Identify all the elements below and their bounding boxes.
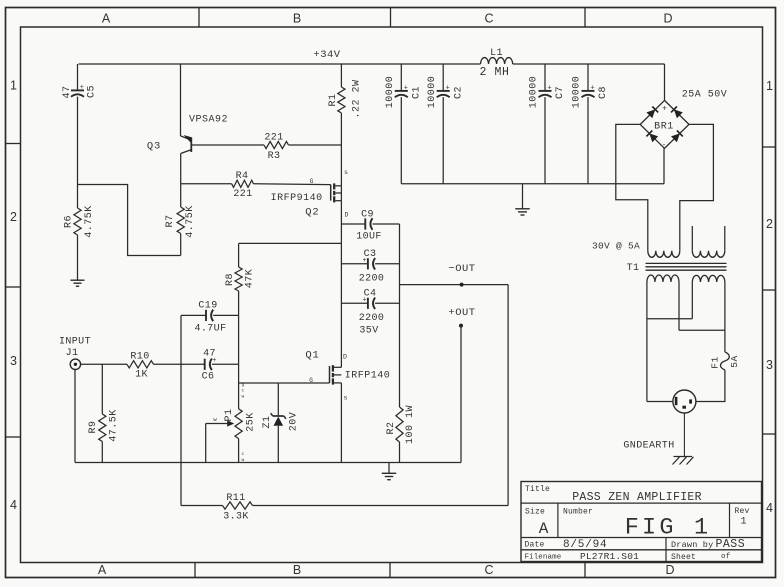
node -OUT junction dot xyxy=(460,283,464,287)
wire ladder left rail xyxy=(340,224,342,367)
svg-text:1K: 1K xyxy=(135,370,148,381)
wire C2 leg lower xyxy=(442,97,444,184)
resistor R11 xyxy=(223,502,253,509)
svg-text:C3: C3 xyxy=(364,249,377,260)
svg-text:PASS: PASS xyxy=(716,538,746,551)
svg-text:3.3K: 3.3K xyxy=(223,511,249,522)
earth ground symbol xyxy=(674,456,693,458)
svg-text:5A: 5A xyxy=(729,355,740,367)
svg-text:R11: R11 xyxy=(226,493,245,504)
svg-text:D: D xyxy=(343,354,347,361)
svg-text:D: D xyxy=(663,12,672,26)
capacitor C7 xyxy=(539,90,552,92)
wire C9 rung right xyxy=(373,223,400,225)
svg-text:IRFP140: IRFP140 xyxy=(345,371,391,382)
svg-text:R1: R1 xyxy=(328,93,339,106)
svg-text:Q3: Q3 xyxy=(147,141,161,153)
node +OUT junction dot xyxy=(459,324,463,328)
svg-text:C5: C5 xyxy=(87,85,98,98)
svg-text:A: A xyxy=(102,12,111,26)
svg-text:3: 3 xyxy=(766,358,773,372)
wire Q1 source to ground bus xyxy=(340,383,342,463)
svg-text:B: B xyxy=(293,563,301,577)
wire C8 leg lower xyxy=(587,97,589,184)
AC mains plug J2 xyxy=(673,390,696,413)
svg-text:+: + xyxy=(80,84,84,92)
svg-text:4: 4 xyxy=(766,501,773,515)
wire cap bank bottom bus xyxy=(401,183,664,185)
wire BR1 minus to cap bus xyxy=(663,148,665,183)
svg-text:C19: C19 xyxy=(198,301,217,312)
wire C6 to bias node xyxy=(212,363,239,365)
svg-text:25A 50V: 25A 50V xyxy=(682,90,728,101)
resistor R7 xyxy=(180,184,182,207)
wire gate node to Z1 xyxy=(239,382,279,384)
connector J1 RCA jack xyxy=(70,359,80,369)
wire Q3 collector to R4 xyxy=(181,183,232,185)
svg-text:G: G xyxy=(309,377,313,384)
grid tick marks bottom xyxy=(194,563,196,578)
svg-text:R6: R6 xyxy=(64,215,75,228)
svg-text:of: of xyxy=(721,553,731,561)
svg-text:1: 1 xyxy=(766,79,773,93)
svg-text:10000: 10000 xyxy=(385,76,396,109)
svg-text:+: + xyxy=(446,84,450,92)
wire C2 leg upper xyxy=(442,64,444,91)
svg-text:25K: 25K xyxy=(246,412,257,432)
svg-text:C8: C8 xyxy=(598,86,609,99)
potentiometer P1 xyxy=(235,409,242,439)
svg-text:Q1: Q1 xyxy=(305,350,319,362)
svg-text:Q2: Q2 xyxy=(305,207,319,219)
grid tick marks left xyxy=(6,143,21,145)
svg-text:4.75K: 4.75K xyxy=(185,205,196,238)
svg-text:C6: C6 xyxy=(202,372,215,383)
wire rail to BR1 plus xyxy=(664,64,666,100)
svg-text:c: c xyxy=(242,389,245,394)
wire T1 secondary right coil stub leads xyxy=(691,226,693,251)
wire R10 to C6 xyxy=(154,363,205,365)
svg-text:R9: R9 xyxy=(88,420,99,433)
wire C4 rung left xyxy=(341,302,367,304)
svg-text:PASS ZEN AMPLIFIER: PASS ZEN AMPLIFIER xyxy=(572,491,702,504)
inductor L1 xyxy=(481,58,513,64)
resistor R6 xyxy=(77,185,79,209)
wire +34V top rail left xyxy=(79,63,481,65)
wire +OUT stub to ground bus xyxy=(460,326,462,463)
wire C1 leg lower xyxy=(400,97,402,184)
wire cap bank ground drop xyxy=(522,184,524,209)
wire Q2 drain down xyxy=(340,201,342,224)
wire C1 leg upper xyxy=(400,64,402,91)
svg-text:C9: C9 xyxy=(361,210,374,221)
svg-text:Sheet: Sheet xyxy=(671,553,696,562)
wire J1 shield down xyxy=(74,370,76,463)
svg-text:FIG 1: FIG 1 xyxy=(625,515,712,542)
resistor R9 xyxy=(101,364,103,414)
svg-text:3: 3 xyxy=(10,354,17,368)
wire R3 to R1 bottom node xyxy=(289,144,342,146)
svg-text:J1: J1 xyxy=(66,348,79,359)
svg-text:+: + xyxy=(590,84,594,92)
transistor Q2 (IRFP9140 P-channel MOSFET) xyxy=(330,185,332,201)
svg-text:2200: 2200 xyxy=(359,313,385,324)
svg-text:10UF: 10UF xyxy=(356,232,382,243)
svg-text:w: w xyxy=(242,395,245,400)
wire -OUT branch xyxy=(400,284,509,286)
wire R8 tap rung xyxy=(239,242,342,244)
svg-text:s: s xyxy=(344,395,348,402)
svg-text:s: s xyxy=(344,169,348,176)
wire C4 rung right xyxy=(375,302,399,304)
svg-text:+: + xyxy=(662,105,667,114)
transformer T1 secondary winding right coil xyxy=(692,251,725,258)
transformer T1 core xyxy=(646,262,727,264)
wire R1 to Q2 source xyxy=(340,113,342,186)
resistor R2 xyxy=(396,407,403,442)
wire BR1 AC left xyxy=(616,124,648,250)
capacitor C1 xyxy=(395,90,408,92)
svg-text:C: C xyxy=(484,12,493,26)
svg-text:2200: 2200 xyxy=(359,274,385,285)
svg-text:C: C xyxy=(484,563,493,577)
svg-text:A: A xyxy=(539,520,549,538)
grid tick marks top xyxy=(198,8,200,28)
wire C9 rung left xyxy=(341,223,365,225)
svg-text:−OUT: −OUT xyxy=(448,263,475,275)
wire plug ground lead xyxy=(683,413,685,457)
svg-text:30V @ 5A: 30V @ 5A xyxy=(592,241,640,252)
grid tick marks right xyxy=(763,146,776,148)
svg-text:P1: P1 xyxy=(224,408,235,421)
svg-text:C2: C2 xyxy=(453,86,464,99)
svg-text:10000: 10000 xyxy=(427,76,438,109)
svg-text:GNDEARTH: GNDEARTH xyxy=(623,441,674,452)
svg-text:20V: 20V xyxy=(289,412,300,432)
wire R11 to output feedback xyxy=(253,505,509,507)
capacitor C5 xyxy=(71,89,84,91)
capacitor C2 xyxy=(437,90,450,92)
svg-text:BR1: BR1 xyxy=(654,121,674,132)
svg-text:w: w xyxy=(242,458,245,463)
wire Q3 base to R3 xyxy=(191,144,264,146)
svg-text:1: 1 xyxy=(740,517,746,528)
svg-text:221: 221 xyxy=(264,133,283,144)
svg-text:R4: R4 xyxy=(236,171,249,182)
svg-text:10000: 10000 xyxy=(529,76,540,109)
wire rail to R1 xyxy=(340,64,342,87)
wire C3 rung left xyxy=(341,263,367,265)
wire ground bus bottom xyxy=(75,462,461,464)
svg-text:L1: L1 xyxy=(490,48,503,59)
svg-text:C7: C7 xyxy=(555,86,566,99)
svg-text:INPUT: INPUT xyxy=(59,337,91,348)
wire T1 primary parallel tie lower xyxy=(679,329,725,331)
svg-text:+: + xyxy=(404,84,408,92)
resistor R10 xyxy=(127,361,154,368)
ground below R6 xyxy=(71,279,85,281)
svg-text:D: D xyxy=(665,563,674,577)
wire C7 leg lower xyxy=(544,97,546,184)
svg-text:Filename: Filename xyxy=(525,554,562,562)
title block frame xyxy=(521,482,762,562)
svg-text:+34V: +34V xyxy=(313,49,340,61)
svg-text:A: A xyxy=(98,563,107,577)
svg-text:B: B xyxy=(293,12,301,26)
svg-text:8/5/94: 8/5/94 xyxy=(563,539,607,551)
svg-text:+: + xyxy=(547,84,551,92)
wire C3 rung right xyxy=(375,263,399,265)
wire plug left xyxy=(647,401,673,403)
wire R7 bottom to R6 node xyxy=(78,185,181,256)
svg-text:10000: 10000 xyxy=(572,76,583,109)
svg-text:Drawn by: Drawn by xyxy=(671,540,713,550)
resistor R3 xyxy=(264,141,289,148)
wire T1 primary right lead to fuse xyxy=(724,282,726,352)
svg-text:C4: C4 xyxy=(364,289,377,300)
svg-text:Date: Date xyxy=(525,541,545,550)
wire fuse to plug right xyxy=(696,370,725,402)
transistor Q1 (IRFP140 N-channel MOSFET) xyxy=(329,366,331,383)
svg-text:PL27R1.S01: PL27R1.S01 xyxy=(580,551,639,562)
wire T1 primary left coil right lead xyxy=(678,282,680,330)
svg-text:47.5K: 47.5K xyxy=(109,409,120,442)
wire T1 primary left lead down to plug xyxy=(646,282,648,402)
bridge rectifier BR1 xyxy=(640,100,689,148)
wire C19 branch right xyxy=(213,314,238,316)
svg-text:2: 2 xyxy=(10,210,17,224)
transformer T1 primary winding left coil xyxy=(647,275,679,282)
capacitor C8 xyxy=(582,90,595,92)
svg-text:47K: 47K xyxy=(245,269,256,289)
wire bias vertical R8 to pot xyxy=(238,315,240,408)
wire -OUT feedback right side down xyxy=(507,285,509,506)
capacitor C4 xyxy=(367,298,369,309)
wire C8 leg upper xyxy=(587,64,589,91)
svg-text:R3: R3 xyxy=(268,151,281,162)
svg-text:R2: R2 xyxy=(386,421,397,434)
svg-text:47: 47 xyxy=(62,85,73,98)
svg-text:100 1W: 100 1W xyxy=(405,405,416,444)
svg-text:c: c xyxy=(242,452,245,457)
svg-text:.22 2W: .22 2W xyxy=(352,79,363,118)
wire feedback vertical input node xyxy=(180,315,182,505)
resistor R4 xyxy=(232,180,254,187)
fuse F1 5A xyxy=(721,352,730,370)
svg-text:+OUT: +OUT xyxy=(448,307,475,319)
svg-text:F1: F1 xyxy=(710,356,721,368)
svg-text:VPSA92: VPSA92 xyxy=(189,115,228,126)
wire R11 left lead xyxy=(181,505,223,507)
svg-text:Title: Title xyxy=(525,485,550,494)
capacitor C6 xyxy=(204,359,206,370)
wire J1 to R10 xyxy=(81,363,127,365)
wire BR1 AC right xyxy=(680,124,714,250)
svg-text:1: 1 xyxy=(10,79,17,93)
wire Q3 collector down xyxy=(180,154,182,184)
wire R4 to Q2 gate xyxy=(254,183,331,186)
svg-text:2: 2 xyxy=(766,217,773,231)
svg-text:221: 221 xyxy=(233,189,252,200)
ground at bottom bus xyxy=(382,472,397,474)
capacitor C3 xyxy=(367,258,369,269)
svg-text:Z1: Z1 xyxy=(262,415,273,428)
wire T1 primary parallel tie upper xyxy=(647,318,692,320)
svg-text:4.7UF: 4.7UF xyxy=(194,324,226,335)
svg-text:G: G xyxy=(310,178,314,185)
wire C5 to R6 node xyxy=(77,97,79,185)
wire C19 branch left xyxy=(181,314,206,316)
svg-text:T1: T1 xyxy=(627,263,640,274)
zener diode Z1 20V xyxy=(277,383,279,416)
resistor R8 xyxy=(238,243,240,267)
transformer T1 primary winding right coil xyxy=(692,275,725,282)
svg-text:R8: R8 xyxy=(225,273,236,286)
resistor R1 xyxy=(338,87,345,113)
svg-text:4: 4 xyxy=(10,498,17,512)
wire gate wire to Q1 xyxy=(278,382,329,384)
capacitor C19 xyxy=(205,310,207,321)
wire C5 branch upper xyxy=(77,64,79,90)
transistor Q3 (PNP ZVP/A92) xyxy=(190,137,192,152)
svg-text:2 MH: 2 MH xyxy=(479,66,509,79)
wire C7 leg upper xyxy=(544,64,546,91)
svg-text:35V: 35V xyxy=(359,326,378,337)
svg-text:4.75K: 4.75K xyxy=(84,205,95,238)
svg-text:IRFP9140: IRFP9140 xyxy=(271,193,323,204)
svg-text:47: 47 xyxy=(203,349,216,360)
capacitor C9 xyxy=(364,218,366,229)
svg-text:Size: Size xyxy=(525,508,545,517)
P1 wiper arm to ground bus xyxy=(206,423,228,425)
wire bus ground drop xyxy=(388,463,390,474)
wire +34V top rail right xyxy=(513,63,665,65)
svg-text:R10: R10 xyxy=(130,351,149,362)
svg-text:Rev: Rev xyxy=(735,507,750,516)
transformer T1 secondary winding left coil xyxy=(648,251,680,258)
svg-text:R7: R7 xyxy=(165,214,176,227)
svg-text:Number: Number xyxy=(563,508,593,517)
wire Q3 emitter from rail xyxy=(180,64,182,136)
svg-text:D: D xyxy=(345,212,349,219)
ground below cap bank xyxy=(515,208,530,210)
wire ladder right rail xyxy=(399,224,401,407)
svg-text:C1: C1 xyxy=(412,86,423,99)
